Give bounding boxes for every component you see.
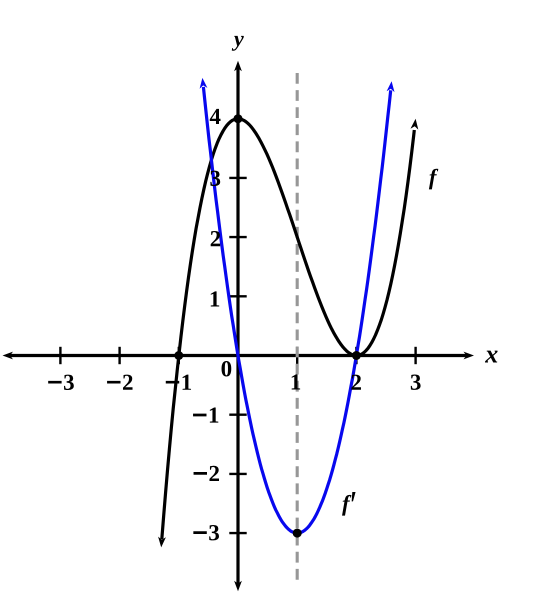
point (1,-3) bbox=[293, 529, 302, 538]
y tick -3 bbox=[229, 532, 246, 534]
label 2 (y-axis) bbox=[211, 231, 221, 246]
point (0,4) bbox=[234, 114, 243, 123]
y-axis bbox=[236, 68, 239, 584]
label 4 (y-axis) bbox=[210, 109, 221, 124]
x-axis right arrowhead bbox=[464, 352, 475, 360]
curve f (black cubic) bbox=[162, 119, 414, 540]
curve f arrowhead upper-right bbox=[411, 119, 419, 130]
label 1 (x-axis) bbox=[292, 374, 300, 389]
point (2,0) bbox=[352, 351, 361, 360]
x tick 1 bbox=[296, 347, 298, 364]
label -1 (x-axis) bbox=[166, 375, 191, 390]
y tick 2 bbox=[229, 236, 246, 238]
x-axis bbox=[10, 354, 468, 357]
x tick -2 bbox=[118, 347, 120, 364]
label f bbox=[429, 169, 438, 190]
y tick -2 bbox=[229, 473, 246, 475]
x-axis left arrowhead bbox=[3, 352, 14, 360]
curve f arrowhead lower-left bbox=[158, 537, 166, 548]
y-axis bottom arrowhead bbox=[234, 581, 242, 592]
x tick 3 bbox=[414, 347, 416, 364]
label 3 (x-axis) bbox=[411, 375, 421, 390]
x tick -3 bbox=[59, 347, 61, 364]
label 2 (x-axis) bbox=[351, 375, 361, 390]
label -2 (y-axis) bbox=[194, 466, 219, 481]
axis label y bbox=[232, 36, 244, 51]
label 1 (y-axis) bbox=[211, 291, 219, 306]
x tick 2 bbox=[355, 347, 357, 364]
curve f' arrowhead upper-left bbox=[200, 78, 208, 89]
x tick -1 bbox=[178, 347, 180, 364]
curve f' (blue parabola) bbox=[203, 87, 390, 533]
point (-1,0) bbox=[174, 351, 183, 360]
label -2 (x-axis) bbox=[107, 375, 132, 390]
dashed guide line x=1 bbox=[296, 73, 299, 580]
y tick 3 bbox=[229, 177, 246, 179]
label 3 (y-axis) bbox=[210, 171, 220, 186]
label 0 (origin) bbox=[222, 361, 232, 376]
y tick -1 bbox=[229, 414, 246, 416]
y-axis top arrowhead bbox=[234, 61, 242, 72]
label -3 (x-axis) bbox=[48, 375, 74, 390]
label -3 (y-axis) bbox=[193, 525, 219, 540]
y tick 1 bbox=[229, 295, 246, 297]
curve f' arrowhead upper-right bbox=[387, 81, 395, 92]
axis label x bbox=[485, 351, 498, 363]
label f' bbox=[342, 492, 356, 516]
label -1 (y-axis) bbox=[193, 407, 218, 422]
